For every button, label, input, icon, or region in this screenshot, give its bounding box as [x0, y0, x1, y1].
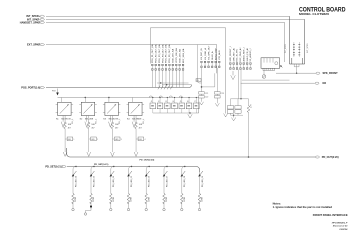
relay K2 — [79, 98, 97, 116]
resistor R15 — [163, 194, 166, 204]
wire to test point — [145, 202, 147, 208]
resistor R4 — [135, 122, 138, 128]
jumper common rail — [153, 112, 199, 114]
svg-text:470R: 470R — [93, 196, 95, 201]
svg-text:J2: J2 — [158, 101, 160, 103]
wires J2 pins down — [202, 68, 218, 92]
svg-text:PD_LED_09: PD_LED_09 — [202, 175, 204, 187]
svg-text:HANDSET_SPKR: HANDSET_SPKR — [20, 21, 41, 24]
svg-text:AGND_REF_J: AGND_REF_J — [242, 47, 245, 61]
svg-text:POS_P5_OUT_KA: POS_P5_OUT_KA — [165, 44, 168, 63]
svg-text:PD_LED_08: PD_LED_08 — [184, 175, 186, 187]
wire — [111, 129, 113, 152]
node rail under J3 — [231, 98, 249, 100]
svg-text:J4: J4 — [172, 101, 174, 103]
ground arrow relay K2 coil — [86, 116, 88, 122]
svg-text:V33_AUD: V33_AUD — [218, 50, 221, 60]
net label M2 right — [315, 82, 319, 84]
bus POS_PORT(1:6) — [46, 85, 192, 88]
capacitor C22 — [199, 96, 205, 99]
resistor R31 — [248, 99, 250, 106]
net stub box K4 — [138, 137, 144, 141]
ground under jumper rail — [188, 113, 192, 118]
wire relay K4 output — [135, 116, 137, 123]
svg-text:470R: 470R — [75, 196, 77, 201]
cursor arrow at MK1 — [280, 65, 282, 67]
LED chain D8 — [181, 166, 186, 194]
wire J3 pin4 down — [237, 70, 239, 99]
ground arrow relay K1 coil — [62, 116, 64, 122]
svg-text:M2: M2 — [323, 82, 327, 85]
capacitor C34 — [235, 110, 241, 113]
svg-text:4: 4 — [144, 139, 145, 141]
wire INT_SPKR+ — [46, 15, 290, 17]
test point circle — [198, 208, 200, 210]
svg-text:MODEL CLXT9820: MODEL CLXT9820 — [299, 12, 330, 16]
svg-text:POS_P1_OUT_KA: POS_P1_OUT_KA — [151, 44, 154, 63]
no-install circle under MK1 — [263, 70, 265, 74]
junction dot J2 — [201, 86, 203, 88]
microphone jack MK1 — [261, 58, 280, 69]
resistor R14 — [145, 194, 148, 204]
jumper resistor RJ5 — [179, 98, 185, 114]
svg-text:EXT_SPKR: EXT_SPKR — [27, 44, 40, 47]
svg-text:VCC5_SW_KA: VCC5_SW_KA — [175, 48, 178, 63]
svg-text:AGND_REF: AGND_REF — [214, 47, 217, 60]
test point circle — [72, 208, 74, 210]
LED chain D2 — [72, 166, 77, 194]
svg-text:REL_2: REL_2 — [95, 119, 97, 124]
svg-text:SPK_RET_AJ: SPK_RET_AJ — [232, 48, 235, 62]
wire relay K1 output — [64, 116, 66, 123]
bus slash marks — [158, 86, 173, 90]
capacitor C21 — [199, 92, 205, 95]
resistor R3 — [111, 122, 114, 128]
svg-text:SHLD_A: SHLD_A — [211, 51, 214, 60]
capacitor C23 — [215, 92, 221, 95]
LED chain D3 — [90, 166, 95, 194]
wire M2 line — [241, 82, 315, 84]
LED chain D9 — [198, 171, 203, 194]
svg-text:HPCS998201-P: HPCS998201-P — [332, 222, 348, 224]
svg-text:POS_P2_OUT_KA: POS_P2_OUT_KA — [154, 44, 157, 63]
svg-text:INT_SPKR: INT_SPKR — [285, 44, 287, 53]
svg-text:REL_3: REL_3 — [119, 119, 121, 124]
wire J3 pin5 down — [240, 70, 242, 99]
wire to test point — [181, 202, 183, 208]
jumper resistor RJ4 — [172, 98, 178, 114]
LED chain D4 — [110, 166, 115, 194]
resistor R11 — [90, 194, 93, 204]
down arrow to PD_OUT — [87, 152, 91, 156]
wire to test point — [90, 202, 92, 208]
wire C24 to ground — [216, 94, 218, 103]
wire — [88, 129, 90, 152]
svg-text:2: 2 — [97, 139, 98, 141]
ground under caps — [231, 115, 235, 121]
svg-text:POS_PORT(1:6): POS_PORT(1:6) — [21, 86, 40, 89]
svg-text:MIC_GND_AJ: MIC_GND_AJ — [239, 48, 242, 62]
wire hop arcs — [149, 96, 182, 98]
svg-text:PD_SET(0:21): PD_SET(0:21) — [94, 164, 109, 166]
svg-text:PD_LED_05: PD_LED_05 — [131, 175, 133, 187]
jumper resistor RJ2 — [157, 98, 163, 114]
svg-text:SW_PAGE: SW_PAGE — [132, 117, 142, 120]
capacitor C24 — [215, 96, 221, 99]
down arrow to PD_OUT — [63, 152, 67, 156]
connector J1 pin labels — [151, 44, 185, 63]
wire EXT_SPKR — [46, 45, 217, 74]
wire to test point — [110, 202, 112, 208]
svg-text:PD_OUT(2:20): PD_OUT(2:20) — [140, 160, 155, 162]
ground arrow relay K4 coil — [133, 116, 135, 122]
bus PD_SET(0:21) — [67, 167, 200, 173]
wire to test point — [72, 202, 74, 208]
wire INT_SPKR- — [46, 18, 305, 20]
svg-text:KEY_SNS_KA: KEY_SNS_KA — [182, 48, 185, 63]
svg-text:470R: 470R — [131, 196, 133, 201]
net stub box K3 — [114, 137, 120, 141]
resistor R2 — [87, 122, 90, 128]
wire caps to ground — [231, 113, 244, 115]
resistor R10 — [72, 194, 75, 204]
jumper resistor RJ7 — [194, 98, 200, 114]
connector J2 pin header — [201, 61, 220, 67]
svg-text:PD_LED_06: PD_LED_06 — [149, 175, 151, 187]
net label PD_OUT(2:20) right — [315, 156, 319, 158]
relay K1 — [56, 98, 74, 116]
svg-text:470R: 470R — [148, 196, 150, 201]
svg-text:PD_OUT(2:20): PD_OUT(2:20) — [322, 156, 339, 159]
jumper resistor RJ6 — [186, 98, 192, 114]
wires J1 pins down to bus — [152, 70, 191, 87]
test point circle — [163, 208, 165, 210]
svg-text:GND_DIG_KB: GND_DIG_KB — [179, 48, 181, 63]
ground arrow at x=225.6 — [224, 114, 228, 118]
wire to test point — [163, 202, 165, 208]
ground under J3 — [231, 71, 236, 80]
test point circle — [145, 208, 147, 210]
net stub box K2 — [91, 137, 97, 141]
svg-text:MIC_IN_FRJ: MIC_IN_FRJ — [237, 49, 239, 62]
relay K3 — [103, 98, 121, 116]
wire SPK_FRONT — [276, 72, 316, 74]
speaker connector pin stubs — [294, 64, 299, 67]
relay K4 — [127, 98, 145, 116]
resistor R1 — [64, 122, 67, 128]
wire to test point — [199, 202, 201, 208]
resistor R13 — [127, 194, 130, 204]
svg-text:J7: J7 — [194, 101, 196, 103]
svg-text:PD_SET(0:21): PD_SET(0:21) — [45, 165, 62, 168]
svg-text:PD_LED_07: PD_LED_07 — [166, 175, 168, 187]
svg-text:470R: 470R — [166, 196, 168, 201]
wire HANDSET_SPKR — [46, 22, 285, 62]
wire branch down x=197.5 — [198, 45, 202, 83]
svg-text:V5_AUDIO_J: V5_AUDIO_J — [249, 48, 252, 61]
LED chain D7 — [163, 166, 168, 194]
junction dots J1 — [160, 82, 161, 83]
ground under C24 — [215, 103, 219, 106]
svg-text:SPK_FRONT: SPK_FRONT — [323, 72, 339, 75]
svg-text:EXT_SPKR: EXT_SPKR — [307, 43, 309, 53]
svg-text:4K7: 4K7 — [68, 127, 71, 129]
svg-text:C21: C21 — [205, 93, 208, 95]
test point circle — [181, 208, 183, 210]
svg-text:SW_LINE: SW_LINE — [85, 118, 94, 120]
svg-text:PD_LED_04: PD_LED_04 — [113, 175, 115, 187]
junction + return loop — [90, 206, 92, 208]
svg-text:C23: C23 — [221, 93, 224, 95]
down arrow to PD_OUT — [134, 152, 138, 156]
connector J3 pin labels — [230, 46, 252, 61]
wire relay K3 output — [111, 116, 113, 123]
wire relay K2 output — [88, 116, 90, 123]
svg-text:POS_P6_OUT_KA: POS_P6_OUT_KA — [168, 44, 171, 63]
svg-text:HS_GND_A: HS_GND_A — [204, 48, 207, 60]
svg-text:R9: R9 — [196, 80, 198, 82]
wire C22 to ground — [201, 94, 203, 102]
svg-text:PD_LED_03: PD_LED_03 — [93, 175, 95, 187]
wire to SPK line — [242, 79, 290, 81]
svg-text:3: 3 — [121, 139, 122, 141]
svg-text:POS_P4_OUT_KA: POS_P4_OUT_KA — [161, 44, 164, 63]
wire SP1 to SPK_FRONT — [296, 67, 298, 73]
svg-text:4K7: 4K7 — [139, 127, 142, 129]
wire — [135, 129, 137, 152]
svg-text:470R: 470R — [113, 196, 115, 201]
svg-text:J1: J1 — [151, 101, 153, 103]
svg-text:4K7: 4K7 — [91, 127, 94, 129]
net stub box K1 — [67, 137, 73, 141]
svg-text:GND_DIG_KA: GND_DIG_KA — [172, 48, 175, 63]
net label SPK_FRONT right — [316, 72, 320, 74]
svg-text:1: 1 — [74, 139, 75, 141]
svg-text:HS_MIC_IN: HS_MIC_IN — [201, 48, 203, 60]
capacitor C33 — [227, 110, 233, 113]
svg-text:Sheet 11 of 23: Sheet 11 of 23 — [333, 225, 348, 228]
svg-text:Notes:: Notes: — [273, 201, 281, 205]
LED chain D6 — [145, 166, 150, 194]
power arrow P5V — [57, 89, 59, 93]
svg-text:J5: J5 — [180, 101, 182, 103]
svg-text:470R: 470R — [184, 196, 186, 201]
svg-text:1. Ignore indicates that the p: 1. Ignore indicates that the part is not… — [273, 205, 333, 209]
resistor R17 — [198, 194, 201, 204]
svg-text:J6: J6 — [187, 101, 189, 103]
svg-text:SHLD_FR_AJ: SHLD_FR_AJ — [246, 48, 249, 62]
svg-text:SW_MUTE: SW_MUTE — [109, 118, 119, 120]
svg-text:REL_4: REL_4 — [143, 119, 145, 124]
connector J1 pin header — [152, 64, 184, 70]
wire — [64, 129, 66, 152]
MK1 footprint pads — [263, 68, 275, 70]
svg-text:4K7: 4K7 — [115, 127, 118, 129]
svg-text:HS_SPK_OUT: HS_SPK_OUT — [208, 45, 210, 60]
LED chain D5 — [127, 166, 132, 194]
connector J3 pin header — [230, 63, 252, 70]
test point circle — [110, 208, 112, 210]
svg-text:SPK_FRONT_J: SPK_FRONT_J — [230, 46, 232, 61]
resistor pack RP2 label box — [196, 79, 201, 82]
relay supply line — [58, 98, 199, 114]
capacitor C31 — [230, 99, 232, 106]
wire R31 to PD_OUT rail — [248, 112, 250, 157]
svg-text:REL_1: REL_1 — [72, 119, 74, 124]
wire to test point — [128, 202, 130, 208]
ground under C22 — [200, 102, 204, 105]
svg-text:PD_LED_02: PD_LED_02 — [75, 175, 77, 187]
ground arrow relay K3 coil — [109, 116, 111, 122]
jumper resistor RJ3 — [165, 98, 171, 114]
svg-text:SW_HOOK: SW_HOOK — [61, 118, 71, 120]
test point circle — [127, 208, 129, 210]
resistor R12 — [110, 194, 113, 204]
svg-text:C22: C22 — [205, 97, 208, 99]
resistor R16 — [181, 194, 184, 204]
svg-text:FRONT PANEL INTERFACE: FRONT PANEL INTERFACE — [313, 213, 348, 217]
jumper resistor RJ1 — [150, 98, 156, 114]
speaker connector SP1 — [290, 16, 305, 64]
svg-text:470R: 470R — [202, 196, 204, 201]
connector J2 pin labels — [201, 45, 221, 60]
svg-text:POS_P3_OUT_KA: POS_P3_OUT_KA — [158, 44, 161, 63]
bus PD_OUT(2:20) — [67, 148, 316, 157]
down arrow to PD_OUT — [111, 152, 115, 156]
svg-text:J3: J3 — [165, 101, 167, 103]
capacitor C32 — [235, 106, 241, 109]
wire route J-block top — [150, 28, 225, 114]
svg-text:01/2004: 01/2004 — [339, 228, 348, 231]
